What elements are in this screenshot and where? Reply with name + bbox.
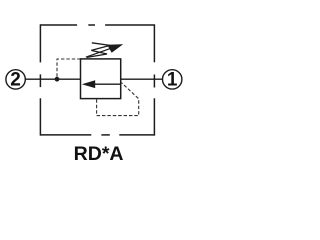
adjustment arrow through spring xyxy=(86,47,114,57)
wire: port 2 line to valve xyxy=(25,78,80,80)
enclosure boundary left edge xyxy=(39,24,41,135)
pilot line (dashed) from junction up to spring side of valve xyxy=(57,59,80,77)
enclosure boundary right edge xyxy=(153,24,155,135)
enclosure boundary bottom edge xyxy=(40,134,154,136)
relief valve body (square envelope) xyxy=(81,59,121,99)
spring (zigzag) above valve xyxy=(87,43,110,58)
svg-text:RD*A: RD*A xyxy=(74,143,124,165)
svg-text:2: 2 xyxy=(10,69,21,90)
junction dot on port 2 line xyxy=(55,77,60,82)
enclosure boundary (long-dash box) top edge xyxy=(40,24,154,26)
svg-text:1: 1 xyxy=(167,69,178,90)
flow path arrow inside valve (points left) xyxy=(93,83,121,85)
port 1 circle xyxy=(163,70,182,89)
pilot drain line (dashed) from valve bottom around to valve right side xyxy=(97,83,139,116)
port 2 circle xyxy=(6,70,25,89)
wire: valve to port 1 line xyxy=(121,78,163,80)
